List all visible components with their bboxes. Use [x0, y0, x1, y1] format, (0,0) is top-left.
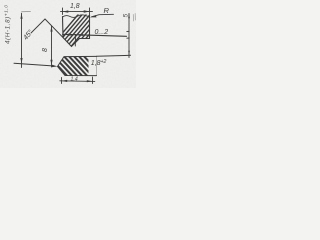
- left height dimension line: [21, 13, 23, 67]
- gap leader line 0...2: [63, 34, 127, 36]
- baseline leader to lower plate tip: [14, 63, 54, 66]
- radius leader arrow: [90, 15, 97, 17]
- lower plate top edge extension line: [97, 55, 131, 56]
- bottom width dimension extension left: [61, 78, 63, 84]
- bottom width dimension arrow left: [62, 80, 68, 82]
- dimension 1,8 arrow left: [63, 10, 69, 12]
- right height dimension up arrow: [128, 13, 130, 18]
- svg-text:R: R: [104, 6, 110, 15]
- svg-text:1,4: 1,4: [71, 77, 78, 83]
- scan artifact right edge: [133, 14, 135, 22]
- depth dimension line (8): [51, 26, 53, 67]
- dimension 1,8 line: [61, 10, 93, 12]
- baseline leader arrow: [52, 65, 58, 68]
- bottom width dimension line: [60, 80, 95, 83]
- bevel angle second leg: [31, 19, 45, 33]
- upper plate hatching: [48, 10, 114, 50]
- upper plate break line (wavy top edge): [63, 15, 90, 18]
- depth dimension down arrow: [50, 60, 52, 66]
- right height dimension down arrow: [128, 51, 130, 56]
- depth dimension up arrow: [50, 26, 52, 32]
- dimension 1,8 arrow right: [84, 10, 90, 12]
- left height dimension extension tick: [22, 11, 31, 13]
- left height dimension up arrow: [20, 13, 22, 18]
- right height dimension line: [128, 14, 130, 58]
- bottom width dimension extension right: [92, 77, 94, 84]
- svg-text:1,8: 1,8: [70, 3, 80, 10]
- gap arrow pointing left: [76, 34, 83, 36]
- right height dimension mid ticks: [127, 30, 129, 32]
- svg-text:5: 5: [122, 13, 129, 17]
- svg-text:0...2: 0...2: [95, 29, 109, 36]
- upper plate outline with chisel point bottom: [63, 16, 90, 47]
- gap arrow pointing right: [68, 34, 75, 36]
- lower plate outline with chisel point left end: [58, 56, 97, 75]
- radius leader line: [92, 14, 114, 16]
- svg-text:8: 8: [42, 48, 49, 52]
- left height dimension down arrow: [20, 58, 22, 64]
- lower plate hatching: [45, 52, 106, 80]
- bottom width dimension arrow right: [87, 80, 93, 82]
- gap root tick: [74, 35, 76, 47]
- dimension 1,8 extension line right: [89, 8, 91, 15]
- dimension 1,8 extension line left: [62, 8, 64, 15]
- lower plate right edge (faint): [96, 57, 98, 76]
- bevel angle construction line extended: [45, 19, 63, 38]
